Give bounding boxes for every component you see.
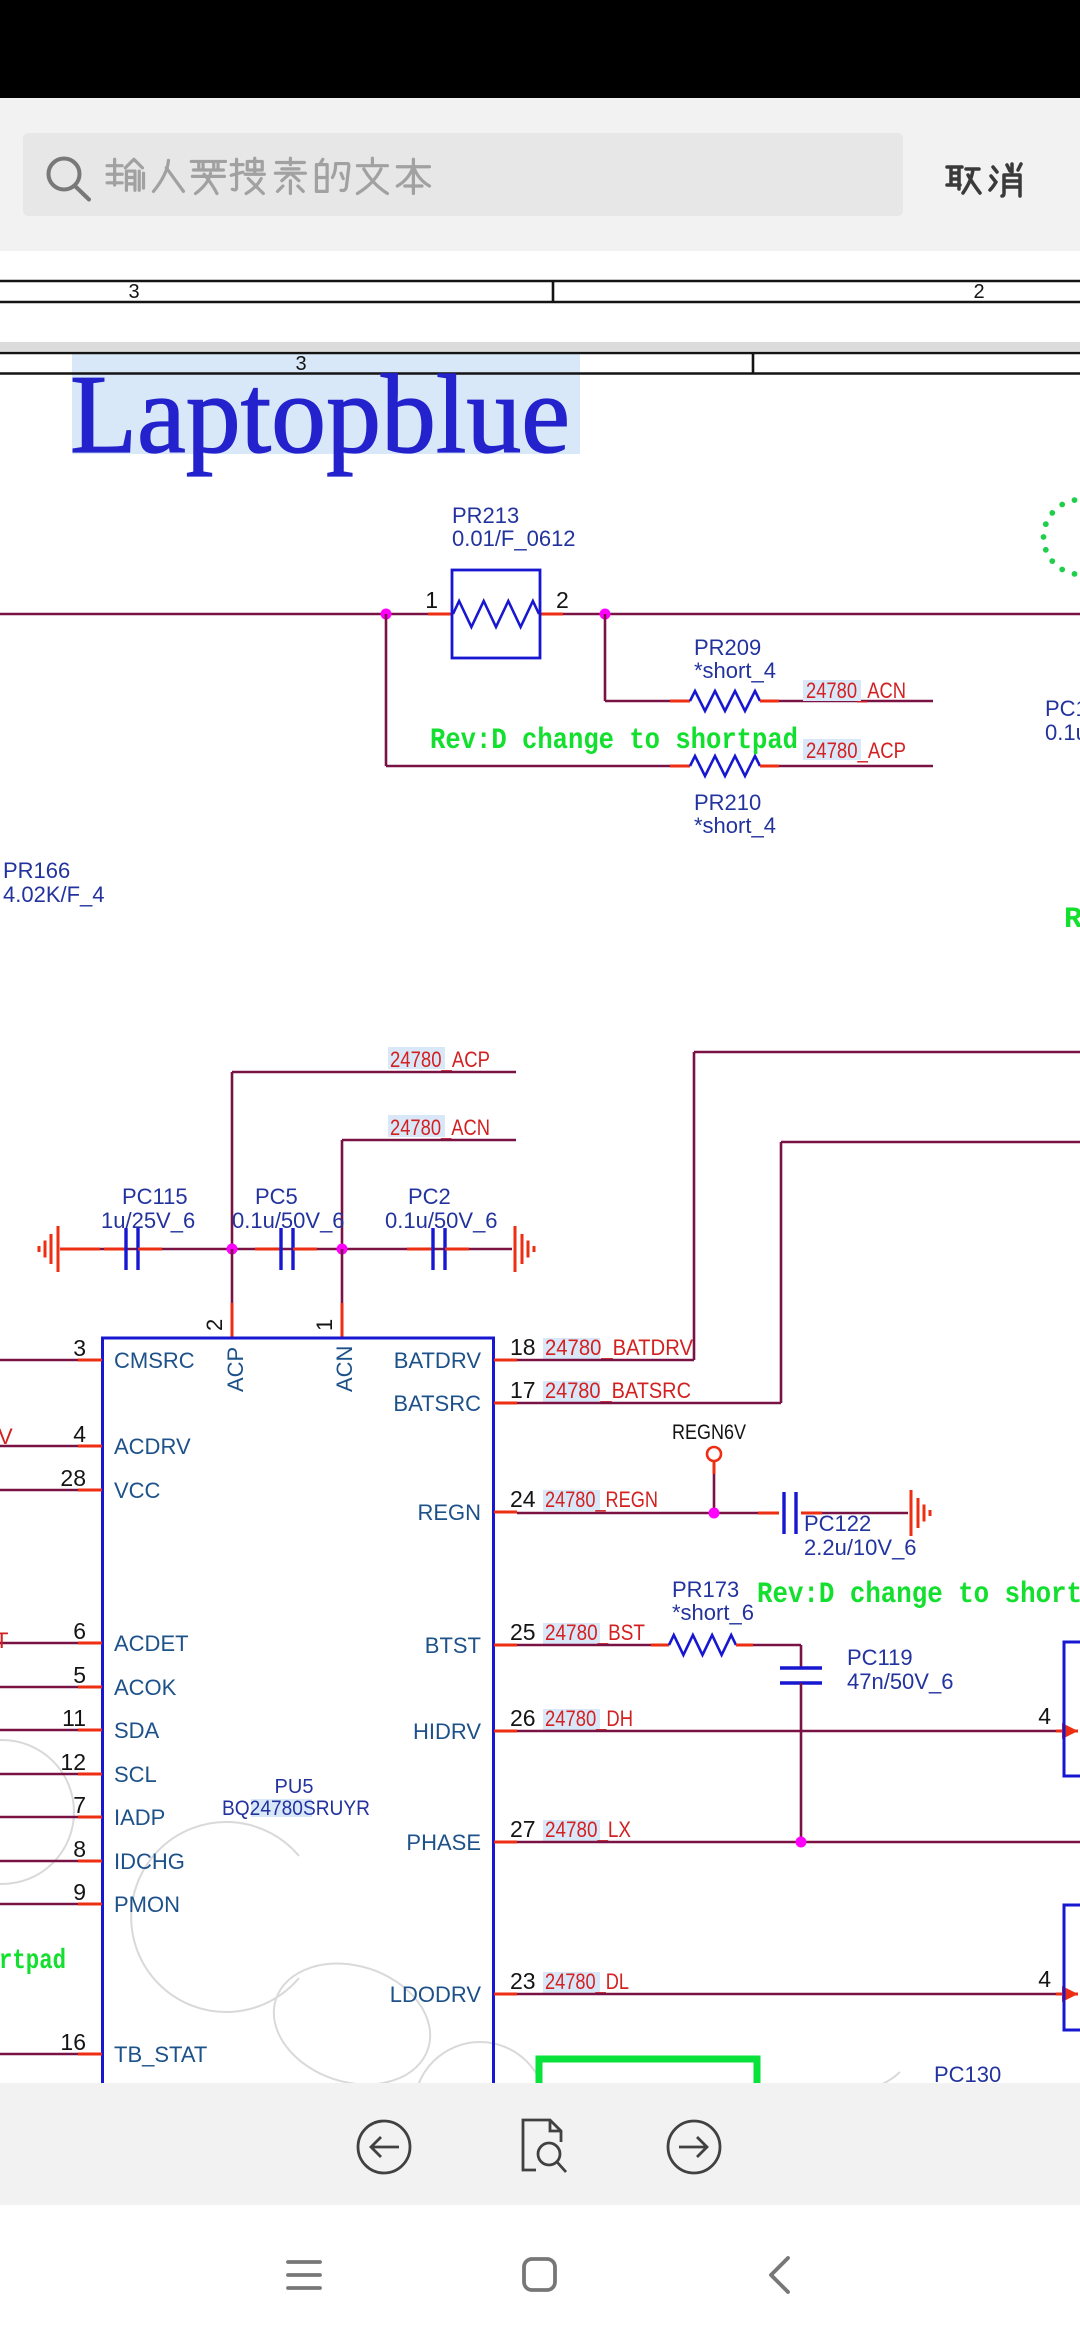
svg-text:T: T — [0, 1628, 8, 1653]
search placeholder text (Chinese) — [107, 159, 143, 190]
pin 5 ACOK wire — [0, 1686, 78, 1689]
svg-text:PU5: PU5 — [275, 1776, 314, 1798]
svg-text:26: 26 — [510, 1705, 536, 1731]
wire BTST — [517, 1644, 651, 1647]
pin 4 arrow into Q (DH) — [1056, 1730, 1078, 1733]
pin 9 PMON wire — [0, 1903, 78, 1906]
svg-text:0.1u/50V_6: 0.1u/50V_6 — [385, 1208, 498, 1233]
junction LX / PC119 — [796, 1837, 807, 1848]
svg-text:16: 16 — [60, 2029, 86, 2055]
ground (right of PC2) — [514, 1226, 517, 1272]
svg-text:28: 28 — [60, 1465, 86, 1491]
svg-text:3: 3 — [128, 281, 139, 303]
nav home (square) icon — [524, 2259, 555, 2290]
capacitor PC119 (horizontal plates) — [780, 1666, 822, 1669]
wire REGN — [517, 1512, 758, 1515]
svg-text:47n/50V_6: 47n/50V_6 — [847, 1669, 953, 1694]
toolbar search-in-document icon — [523, 2120, 566, 2172]
wire caps row — [100, 1248, 512, 1251]
toolbar back (prev page) icon — [358, 2121, 410, 2173]
pin 17 BATSRC — [494, 1402, 517, 1405]
ground at PC122 — [910, 1490, 913, 1536]
net label 24780_DL — [543, 1972, 600, 1993]
svg-text:PR210: PR210 — [694, 790, 761, 815]
pin 4 ACDRV wire — [0, 1445, 78, 1448]
capacitor PC5 — [255, 1248, 281, 1251]
resistor PR209 — [670, 700, 690, 703]
svg-text:ACOK: ACOK — [114, 1675, 177, 1700]
svg-text:R: R — [1064, 903, 1080, 937]
svg-text:4: 4 — [73, 1421, 86, 1447]
svg-text:PC2: PC2 — [408, 1184, 451, 1209]
svg-text:Rev:D change to short: Rev:D change to short — [757, 1578, 1080, 1612]
net label 24780_BATDRV — [543, 1338, 600, 1359]
svg-text:PC115: PC115 — [122, 1184, 188, 1209]
green component box (bottom) — [539, 2059, 757, 2129]
wire PHASE/LX — [517, 1841, 1080, 1844]
wire from junction to PR209 branch — [604, 614, 607, 701]
net label 24780_LX — [543, 1820, 600, 1841]
svg-text:0.1u/50V_6: 0.1u/50V_6 — [232, 1208, 345, 1233]
wire LDODRV/DL — [517, 1993, 1056, 1996]
wire BATDRV net — [694, 1051, 1080, 1054]
svg-text:REGN6V: REGN6V — [672, 1421, 746, 1444]
svg-text:Rev:D change to shortpad: Rev:D change to shortpad — [430, 724, 798, 758]
svg-text:24780_LX: 24780_LX — [545, 1817, 631, 1842]
svg-text:24780_BST: 24780_BST — [545, 1620, 645, 1645]
svg-text:6: 6 — [73, 1618, 86, 1644]
svg-text:HIDRV: HIDRV — [413, 1719, 481, 1744]
svg-text:12: 12 — [60, 1749, 86, 1775]
svg-text:24: 24 — [510, 1486, 536, 1512]
svg-text:PC119: PC119 — [847, 1645, 913, 1670]
svg-text:IADP: IADP — [114, 1805, 165, 1830]
capacitor PC122 — [758, 1512, 779, 1515]
pin 1 stub ACN into IC — [341, 1249, 344, 1303]
svg-text:2.2u/10V_6: 2.2u/10V_6 — [804, 1535, 917, 1560]
watermark (decorative-like but keep) — [0, 1740, 900, 2174]
svg-text:Laptopblue: Laptopblue — [70, 353, 570, 477]
svg-text:24780_BATSRC: 24780_BATSRC — [545, 1378, 691, 1403]
svg-text:PR166: PR166 — [3, 858, 70, 883]
svg-text:11: 11 — [62, 1705, 86, 1731]
svg-text:PC14: PC14 — [1045, 696, 1080, 721]
svg-text:24780_ACP: 24780_ACP — [390, 1047, 490, 1072]
pin 2 stub ACP into IC — [231, 1249, 234, 1303]
junction ACN at caps row — [337, 1244, 348, 1255]
svg-text:PC122: PC122 — [804, 1511, 871, 1536]
svg-text:IDCHG: IDCHG — [114, 1849, 185, 1874]
svg-text:24780_ACN: 24780_ACN — [390, 1115, 490, 1140]
capacitor PC2 — [407, 1248, 433, 1251]
resistor PR173 — [651, 1644, 669, 1647]
svg-text:*short_4: *short_4 — [694, 658, 776, 683]
svg-text:4: 4 — [1038, 1703, 1051, 1729]
junction node at PR213 pin2 — [600, 609, 611, 620]
wire HIDRV/DH — [517, 1730, 1056, 1733]
cancel button (Chinese) — [947, 167, 980, 193]
svg-text:2: 2 — [202, 1319, 227, 1331]
resistor PR210 — [670, 765, 690, 768]
wire BATSRC pin to net — [517, 1402, 781, 1405]
pin 18 BATDRV — [494, 1359, 517, 1362]
bottom toolbar — [0, 2083, 1080, 2205]
svg-text:PR213: PR213 — [452, 503, 519, 528]
net label 24780_ACP (branch) — [803, 739, 861, 760]
junction node at PR213 pin1 — [381, 609, 392, 620]
svg-text:REGN: REGN — [417, 1500, 481, 1525]
green dotted circle (partial, right edge) — [1041, 497, 1080, 577]
transistor Q box partial (upper) — [1064, 1642, 1080, 1776]
pin 11 SDA wire — [0, 1729, 78, 1732]
svg-text:BATSRC: BATSRC — [393, 1391, 481, 1416]
search header panel — [0, 98, 1080, 251]
svg-text:17: 17 — [510, 1377, 536, 1403]
svg-text:BATDRV: BATDRV — [394, 1348, 482, 1373]
nav back (chevron) icon — [771, 2258, 788, 2292]
pin 3 CMSRC wire — [0, 1359, 78, 1362]
svg-text:24780_ACP: 24780_ACP — [806, 738, 906, 763]
pin 23 LDODRV — [494, 1993, 517, 1996]
svg-text:2: 2 — [973, 281, 984, 303]
svg-text:8: 8 — [73, 1836, 86, 1862]
svg-text:*short_4: *short_4 — [694, 813, 776, 838]
svg-text:2: 2 — [556, 587, 569, 613]
svg-text:rtpad: rtpad — [0, 1946, 66, 1977]
net label 24780_ACN (branch) — [803, 680, 861, 701]
svg-text:VCC: VCC — [114, 1478, 161, 1503]
wire ACN net — [342, 1139, 516, 1142]
search magnifier icon — [49, 159, 80, 190]
svg-text:4: 4 — [1038, 1966, 1051, 1992]
svg-text:25: 25 — [510, 1619, 536, 1645]
wire BATDRV pin to net — [517, 1359, 694, 1362]
pin 7 IADP wire — [0, 1816, 78, 1819]
svg-text:BQ24780SRUYR: BQ24780SRUYR — [222, 1797, 370, 1820]
svg-text:1u/25V_6: 1u/25V_6 — [101, 1208, 195, 1233]
op-amp/IC U box PU5 BQ24780SRUYR — [103, 1338, 494, 2100]
capacitor PC115 — [104, 1248, 126, 1251]
svg-text:PR209: PR209 — [694, 635, 761, 660]
svg-text:0.01/F_0612: 0.01/F_0612 — [452, 526, 576, 551]
svg-text:7: 7 — [73, 1792, 86, 1818]
pin 16 TB_STAT wire — [0, 2053, 78, 2056]
svg-text:27: 27 — [510, 1816, 536, 1842]
svg-text:9: 9 — [73, 1879, 86, 1905]
svg-text:4.02K/F_4: 4.02K/F_4 — [3, 882, 105, 907]
pin 12 SCL wire — [0, 1773, 78, 1776]
svg-text:5: 5 — [73, 1662, 86, 1688]
svg-text:PC5: PC5 — [255, 1184, 298, 1209]
svg-text:*short_6: *short_6 — [672, 1600, 754, 1625]
nav menu (hamburger) icon — [288, 2262, 320, 2288]
pin 27 PHASE — [494, 1841, 517, 1844]
sheet frame band 2 — [0, 352, 1080, 355]
svg-text:24780_DH: 24780_DH — [545, 1706, 633, 1731]
resistor PR213 — [452, 570, 540, 658]
svg-text:ACP: ACP — [223, 1347, 248, 1392]
pin 6 ACDET wire — [0, 1642, 78, 1645]
wire BATSRC net — [781, 1141, 1080, 1144]
svg-text:24780_BATDRV: 24780_BATDRV — [545, 1335, 693, 1360]
pin 26 HIDRV — [494, 1730, 517, 1733]
net label 24780_BATSRC — [543, 1381, 600, 1402]
svg-text:18: 18 — [510, 1334, 536, 1360]
wire ACDET main horizontal — [0, 613, 1080, 616]
net label 24780_DH — [543, 1709, 600, 1730]
svg-text:1: 1 — [425, 587, 438, 613]
svg-text:BTST: BTST — [425, 1633, 481, 1658]
toolbar forward (next page) icon — [668, 2121, 720, 2173]
net label 24780_BST — [543, 1623, 600, 1644]
search input field — [23, 133, 903, 216]
net label 24780_ACP (top) — [388, 1047, 445, 1069]
pin 28 VCC wire — [0, 1489, 78, 1492]
svg-text:CMSRC: CMSRC — [114, 1348, 195, 1373]
svg-text:23: 23 — [510, 1968, 536, 1994]
svg-text:ACDRV: ACDRV — [114, 1434, 191, 1459]
wire ACP net — [232, 1071, 516, 1074]
svg-text:1: 1 — [312, 1319, 337, 1331]
svg-text:PMON: PMON — [114, 1892, 180, 1917]
svg-text:24780_DL: 24780_DL — [545, 1969, 629, 1994]
pin 25 BTST — [494, 1644, 517, 1647]
svg-text:3: 3 — [73, 1335, 86, 1361]
wire PC119 to LX — [800, 1683, 803, 1842]
highlight on 24780 in BQ24780SRUYR — [251, 1799, 312, 1817]
svg-text:ACN: ACN — [332, 1346, 357, 1392]
svg-text:SCL: SCL — [114, 1762, 157, 1787]
pin 8 IDCHG wire — [0, 1860, 78, 1863]
junction REGN / REGN6V — [709, 1508, 720, 1519]
svg-text:SDA: SDA — [114, 1718, 160, 1743]
svg-text:LDODRV: LDODRV — [390, 1982, 482, 2007]
svg-text:24780_ACN: 24780_ACN — [806, 678, 906, 703]
svg-text:V: V — [0, 1424, 13, 1449]
ground (left of PC115) — [57, 1226, 60, 1272]
android nav bar — [0, 2205, 1080, 2340]
svg-text:ACDET: ACDET — [114, 1631, 189, 1656]
pin 4 arrow into Q (DL) — [1056, 1993, 1078, 1996]
svg-text:0.1u: 0.1u — [1045, 720, 1080, 745]
transistor Q box partial (lower) — [1064, 1905, 1080, 2030]
wire from junction to PR210 branch — [385, 614, 388, 766]
sheet frame band 1 — [0, 280, 1080, 283]
wire BTST down to PC119 — [800, 1645, 803, 1668]
junction ACP at caps row — [227, 1244, 238, 1255]
net label 24780_ACN (top) — [388, 1115, 445, 1137]
svg-text:24780_REGN: 24780_REGN — [545, 1487, 658, 1512]
net label 24780_REGN — [543, 1490, 600, 1511]
svg-text:TB_STAT: TB_STAT — [114, 2042, 207, 2067]
svg-text:PR173: PR173 — [672, 1577, 739, 1602]
status bar — [0, 0, 1080, 98]
selection highlight Laptopblue — [72, 352, 580, 454]
svg-text:PHASE: PHASE — [406, 1830, 481, 1855]
gray separator band — [0, 342, 1080, 351]
wire pin stubs of PR213 — [428, 613, 452, 616]
pin 24 REGN — [494, 1511, 517, 1514]
